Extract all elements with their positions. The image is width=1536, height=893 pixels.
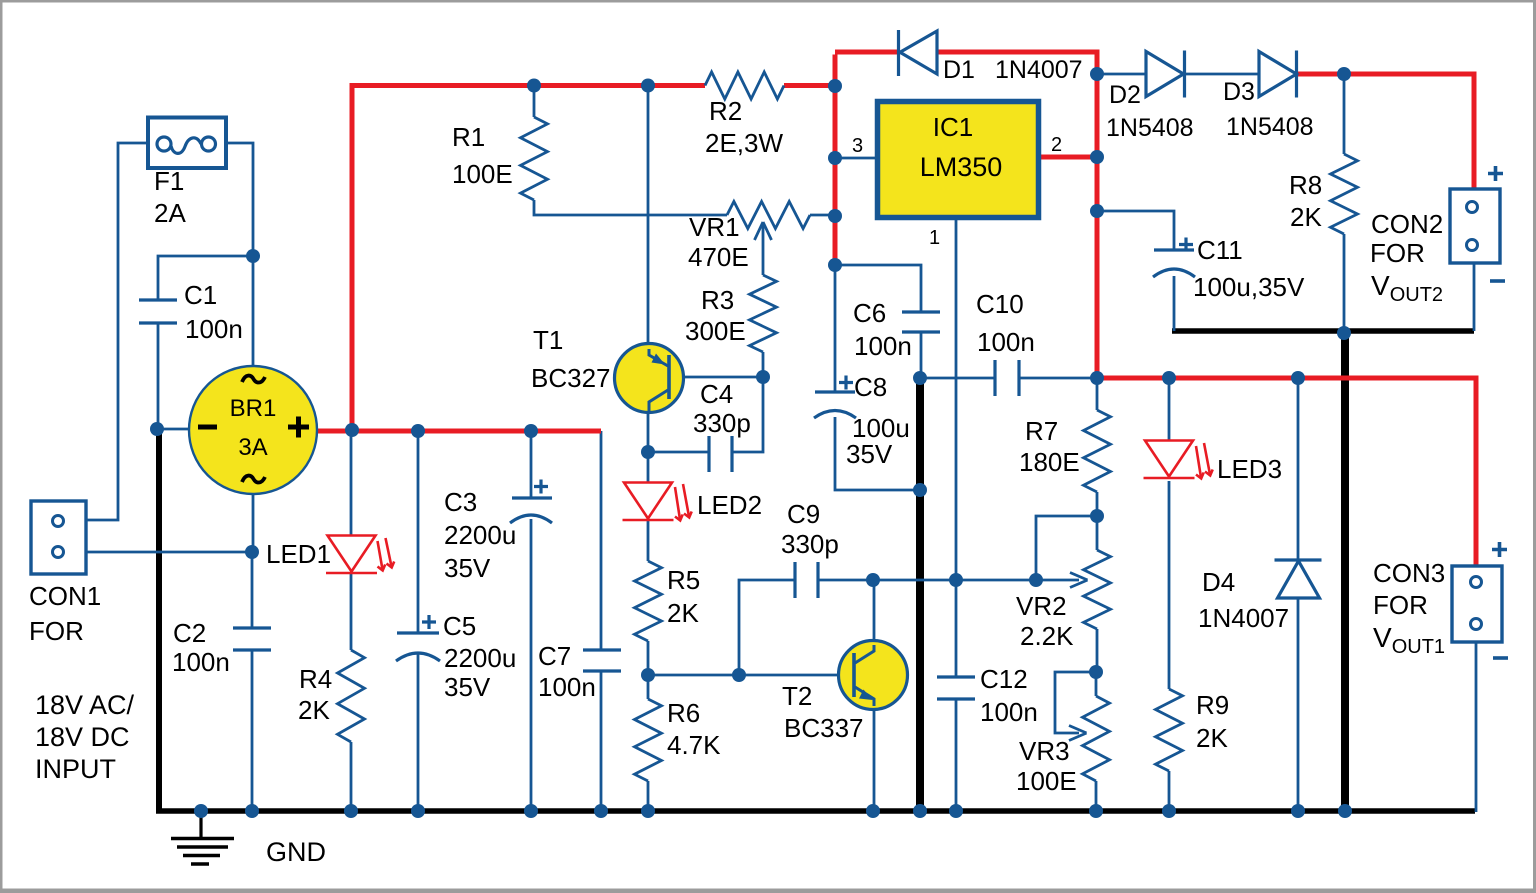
resistor R4	[338, 650, 365, 742]
svg-text:D3: D3	[1223, 78, 1255, 106]
polarity minus CON2	[1490, 279, 1505, 283]
svg-text:C4: C4	[700, 379, 733, 409]
wire red vertical x835	[833, 55, 838, 266]
wire node H to VR2 wiper arrow	[873, 579, 1079, 582]
capacitor C3 electrolytic	[510, 498, 552, 523]
node dot R2 right	[828, 79, 842, 93]
svg-text:2A: 2A	[154, 198, 186, 228]
wire C8 bottom to black feeder	[835, 417, 920, 490]
node L dot	[913, 371, 927, 385]
node dot top rail T1	[641, 79, 655, 93]
wire node A to BR1 AC2 top	[252, 256, 255, 366]
polarity plus C5	[422, 615, 436, 629]
wire node Q to C11 plus plate	[1095, 211, 1174, 250]
potentiometer VR1	[727, 202, 810, 229]
potentiometer VR3	[1083, 696, 1110, 781]
wire black input return vertical x159	[156, 430, 162, 811]
node dot VR2 bottom	[1089, 665, 1103, 679]
svg-text:2200u: 2200u	[444, 520, 516, 550]
capacitor C7	[583, 650, 621, 671]
wire C7 bottom to ground rail	[600, 671, 603, 811]
wire VOUT1 rail to LED3 anode	[1168, 378, 1171, 441]
wire R5 bottom to node F	[647, 641, 650, 675]
capacitor C5 electrolytic	[396, 633, 440, 661]
node dot pin3	[828, 151, 842, 165]
svg-text:2.2K: 2.2K	[1020, 621, 1074, 651]
capacitor C2	[233, 628, 271, 650]
wire C9 right plate to node H	[818, 579, 873, 582]
fuse F1	[148, 118, 226, 169]
LED1	[326, 536, 394, 574]
svg-text:VR1: VR1	[689, 212, 740, 242]
svg-text:GND: GND	[266, 837, 326, 867]
node E dot	[641, 445, 655, 459]
svg-text:BR1: BR1	[230, 395, 277, 422]
wire node F to T2 base	[648, 674, 853, 677]
wire node K to C6 top	[835, 265, 921, 312]
svg-text:330p: 330p	[781, 529, 839, 559]
wire VR3 leads	[1095, 672, 1098, 811]
svg-text:2K: 2K	[667, 598, 699, 628]
node dot red rail x531	[524, 424, 538, 438]
node dot D4 top	[1291, 371, 1305, 385]
wire node P to R8 top	[1343, 74, 1346, 154]
wire R4 bottom to ground rail	[350, 742, 353, 811]
connector CON1	[31, 501, 86, 574]
capacitor C1	[139, 300, 177, 323]
wire CON1 pin1 to fuse F1 left	[86, 143, 148, 520]
node dot pin2	[1090, 150, 1104, 164]
wire node A to C1 top	[158, 256, 253, 300]
wire top rail y85	[352, 86, 705, 89]
wire R1 bottom to VR1 left	[534, 200, 727, 215]
diode D1 1N4007	[899, 30, 938, 76]
wire C11 bottom to black rail	[1173, 276, 1176, 331]
wire node N to D2 anode	[1097, 73, 1146, 76]
wire VOUT1 rail y378	[1097, 378, 1476, 566]
svg-text:C10: C10	[976, 289, 1024, 319]
svg-text:BC327: BC327	[531, 363, 611, 393]
svg-text:2200u: 2200u	[444, 643, 516, 673]
polarity plus CON3	[1492, 542, 1507, 557]
svg-text:R2: R2	[709, 96, 742, 126]
svg-text:VR2: VR2	[1016, 591, 1067, 621]
resistor R9	[1156, 689, 1183, 771]
polarity minus CON3	[1493, 656, 1508, 660]
wire VR2 bottom node to VR3 wiper loop	[1055, 672, 1096, 733]
svg-text:18V AC/: 18V AC/	[35, 690, 135, 720]
wire red rail to C5 plus plate	[417, 431, 420, 633]
svg-text:C7: C7	[538, 641, 571, 671]
polarity plus C8	[839, 376, 853, 390]
wire node B to BR1 AC1	[157, 428, 190, 431]
svg-text:C9: C9	[787, 499, 820, 529]
transistor T1 BC327	[615, 344, 684, 413]
wire red rail end to C7 top	[600, 431, 603, 650]
svg-text:LED2: LED2	[697, 490, 762, 520]
polarity plus C3	[422, 166, 1508, 658]
capacitor C6	[902, 312, 940, 332]
wire IC1 pin 1 down to node J	[955, 220, 958, 580]
ground rail dots	[194, 804, 208, 818]
transistor T2 BC337	[839, 641, 908, 710]
svg-text:100n: 100n	[538, 672, 596, 702]
wire LED3 cathode to R9 top	[1168, 481, 1171, 689]
wire VOUT1 rail to D4 cathode	[1297, 378, 1300, 560]
svg-text:470E: 470E	[688, 242, 749, 272]
wire node F to R6 top	[647, 675, 650, 699]
svg-text:F1: F1	[154, 166, 184, 196]
svg-text:4.7K: 4.7K	[667, 730, 721, 760]
wire BR1 bottom to node C	[252, 492, 255, 552]
node dot R8 bottom	[1337, 326, 1351, 340]
capacitor C10	[995, 360, 1019, 396]
wire C12 bottom to ground rail	[955, 699, 958, 811]
svg-text:300E: 300E	[685, 316, 746, 346]
potentiometer VR1 wiper arrow	[755, 222, 772, 240]
svg-text:D1: D1	[943, 56, 975, 84]
polarity plus C11	[1179, 238, 1193, 252]
node dot LED3 top	[1162, 371, 1176, 385]
wire node K to C8 plus plate	[834, 265, 837, 392]
svg-text:18V DC: 18V DC	[35, 722, 130, 752]
svg-text:1N5408: 1N5408	[1226, 113, 1314, 141]
svg-text:FOR: FOR	[29, 616, 84, 646]
node F dot	[641, 668, 655, 682]
svg-text:3A: 3A	[238, 434, 267, 461]
wire CON2 minus to black rail	[1473, 263, 1476, 331]
svg-text:100u,35V: 100u,35V	[1193, 272, 1305, 302]
wire C5 bottom to ground rail	[417, 654, 420, 811]
wire node J to C12 top	[955, 580, 958, 677]
svg-text:330p: 330p	[693, 408, 751, 438]
diode D4 1N4007	[1275, 560, 1322, 598]
capacitor C9	[795, 562, 818, 598]
node dot red rail x418	[411, 424, 425, 438]
wire LED2 cathode to R5 top	[647, 521, 650, 561]
svg-text:3: 3	[852, 135, 863, 157]
wire node G up to C9 left plate	[739, 580, 795, 675]
wire CON1 pin2 to node C	[86, 551, 252, 554]
wire VR2 leads	[1096, 516, 1099, 672]
wire node E to C4 left plate	[648, 451, 709, 454]
svg-text:100n: 100n	[977, 327, 1035, 357]
svg-text:R3: R3	[701, 285, 734, 315]
svg-text:R9: R9	[1196, 690, 1229, 720]
svg-text:100n: 100n	[980, 697, 1038, 727]
wire R7 leads	[1096, 378, 1099, 516]
wire IC1 pin 2	[1041, 155, 1097, 160]
wire D2 cathode to D3 anode	[1184, 73, 1259, 76]
svg-text:100E: 100E	[452, 159, 513, 189]
node N dot	[1090, 67, 1104, 81]
wire R2 right to red vertical	[784, 83, 837, 88]
svg-text:FOR: FOR	[1370, 238, 1425, 268]
svg-text:R1: R1	[452, 122, 485, 152]
svg-text:1N4007: 1N4007	[1198, 603, 1289, 633]
svg-text:C12: C12	[980, 664, 1028, 694]
svg-text:1N5408: 1N5408	[1106, 114, 1194, 142]
svg-text:100n: 100n	[172, 647, 230, 677]
diode D2 1N5408	[1146, 51, 1185, 98]
polarity plus CON2	[1488, 166, 1503, 181]
resistor R8	[1331, 154, 1358, 234]
svg-text:R5: R5	[667, 565, 700, 595]
svg-text:R4: R4	[299, 664, 332, 694]
wire node L to C10 left plate	[920, 377, 995, 380]
svg-text:LM350: LM350	[920, 152, 1003, 182]
ground rail	[156, 808, 1475, 814]
node C dot	[245, 545, 259, 559]
wire T2 collector to node H	[873, 580, 876, 643]
svg-text:LED3: LED3	[1217, 454, 1282, 484]
svg-text:T1: T1	[533, 325, 563, 355]
node Q dot	[1090, 204, 1104, 218]
svg-text:2E,3W: 2E,3W	[705, 128, 783, 158]
svg-text:R8: R8	[1289, 170, 1322, 200]
wire C6 bottom to node L	[920, 332, 923, 378]
svg-text:100n: 100n	[185, 314, 243, 344]
wire VR1 right lead to node	[810, 214, 835, 217]
wire T1 collector to node E	[647, 411, 650, 482]
node P dot	[1337, 67, 1351, 81]
svg-text:FOR: FOR	[1373, 590, 1428, 620]
resistor R1	[521, 117, 548, 200]
svg-text:C11: C11	[1197, 235, 1243, 265]
node B dot	[150, 422, 164, 436]
svg-text:CON3: CON3	[1373, 558, 1445, 588]
svg-text:35V: 35V	[444, 553, 491, 583]
svg-text:C6: C6	[853, 298, 886, 328]
diode D3 1N5408	[1259, 51, 1297, 98]
wire D1 rail y52 left	[835, 50, 899, 55]
svg-text:IC1: IC1	[933, 112, 973, 142]
wire T1 base to node D	[682, 376, 763, 379]
svg-text:2K: 2K	[1196, 723, 1228, 753]
wire D1 rail y52 right	[937, 52, 1097, 74]
wire red rail to LED1 anode	[350, 431, 353, 536]
ground symbol	[171, 814, 234, 864]
svg-text:CON1: CON1	[29, 581, 101, 611]
resistor R7	[1084, 410, 1111, 492]
wire R8 bottom to black rail	[1343, 234, 1346, 334]
svg-text:LED1: LED1	[266, 539, 331, 569]
LED3	[1144, 441, 1213, 479]
node dot R7 bottom	[1090, 509, 1104, 523]
capacitor C8 electrolytic	[814, 392, 856, 418]
svg-text:BC337: BC337	[784, 713, 864, 743]
svg-text:D4: D4	[1202, 567, 1235, 597]
resistor R3	[750, 275, 777, 352]
connector CON2	[1450, 189, 1500, 263]
svg-text:1: 1	[929, 227, 940, 249]
wire C1 bottom to node B	[157, 323, 160, 430]
svg-text:C8: C8	[854, 372, 887, 402]
node H dot	[866, 573, 880, 587]
node dot VR2 wiper riser	[1029, 573, 1043, 587]
wire C4 right plate to node D	[732, 377, 763, 452]
wire R9 bottom to ground rail	[1168, 771, 1171, 811]
svg-text:100n: 100n	[854, 331, 912, 361]
svg-text:35V: 35V	[846, 439, 893, 469]
node A dot	[246, 249, 260, 263]
regulator IC1 LM350	[878, 102, 1039, 218]
connector CON3	[1452, 566, 1502, 642]
resistor R6	[635, 699, 662, 781]
wire C10 right plate to node M	[1019, 377, 1097, 380]
wire red rail to C3 plus plate	[530, 431, 533, 498]
svg-text:180E: 180E	[1019, 447, 1080, 477]
node G dot	[732, 668, 746, 682]
svg-text:C3: C3	[444, 487, 477, 517]
node K dot	[828, 258, 842, 272]
node dot C8 to feeder	[913, 483, 927, 497]
wire R6 bottom to ground rail	[647, 781, 650, 811]
bridge rectifier BR1	[189, 366, 317, 494]
svg-text:D2: D2	[1109, 81, 1141, 109]
wire R3 bottom to node D	[762, 352, 765, 377]
svg-text:100E: 100E	[1016, 766, 1077, 796]
capacitor C11 electrolytic	[1153, 250, 1195, 277]
wire red vertical x352	[350, 86, 355, 432]
svg-text:C1: C1	[184, 280, 217, 310]
wire CON3 minus to ground rail	[1475, 643, 1478, 812]
svg-text:T2: T2	[782, 681, 812, 711]
svg-text:2K: 2K	[298, 695, 330, 725]
wire VR1 wiper to R3 top	[762, 222, 765, 275]
node dot top rail R1	[527, 79, 541, 93]
node dot VR1 right	[828, 209, 842, 223]
wire D3 cathode to CON2 plus	[1294, 74, 1474, 190]
svg-text:1N4007: 1N4007	[995, 56, 1083, 84]
svg-text:2: 2	[1051, 134, 1062, 156]
wire regulator output vertical x1097	[1095, 74, 1100, 378]
wire black feeder x920	[916, 378, 924, 811]
node dot red rail x352	[345, 423, 359, 437]
potentiometer VR2	[1084, 550, 1111, 629]
wire black feeder x1345	[1341, 331, 1349, 811]
wire IC1 pin 3	[835, 157, 875, 160]
resistor R2	[705, 72, 784, 99]
svg-text:CON2: CON2	[1371, 209, 1443, 239]
wire node C to C2 top	[251, 552, 254, 628]
wire top rail to T1 emitter	[647, 86, 650, 346]
wire LED1 cathode to R4 top	[350, 573, 353, 650]
wire BR1 plus to C7 rail y431	[315, 429, 601, 434]
node J dot	[949, 573, 963, 587]
wire C3 bottom to ground rail	[530, 519, 533, 811]
wire black VOUT2 return y331	[1172, 328, 1474, 334]
wire R7 bottom node to VR2 wiper loop	[1036, 516, 1097, 580]
svg-text:R6: R6	[667, 698, 700, 728]
wire D4 anode to ground rail	[1297, 598, 1300, 811]
svg-text:2K: 2K	[1290, 202, 1322, 232]
LED2	[623, 483, 692, 521]
svg-text:INPUT: INPUT	[35, 754, 116, 784]
svg-text:VR3: VR3	[1019, 736, 1070, 766]
svg-text:35V: 35V	[444, 672, 491, 702]
svg-text:R7: R7	[1025, 416, 1058, 446]
svg-text:C5: C5	[443, 611, 476, 641]
potentiometer VR3 wiper arrow	[1069, 726, 1087, 741]
wire C2 bottom to ground rail	[251, 650, 254, 811]
node D dot	[756, 370, 770, 384]
svg-text:C2: C2	[173, 618, 206, 648]
wire fuse F1 right to node A	[225, 143, 253, 256]
capacitor C12	[937, 677, 975, 699]
wire top rail to R1 top	[533, 86, 536, 118]
wire T2 emitter to ground rail	[873, 708, 876, 811]
capacitor C4	[709, 436, 732, 472]
resistor R5	[635, 561, 662, 641]
potentiometer VR2 wiper arrow	[1070, 573, 1088, 588]
node M dot	[1090, 371, 1104, 385]
